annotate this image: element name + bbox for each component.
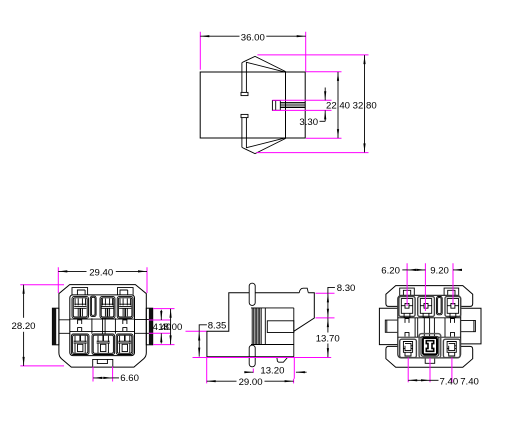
top latch foot [241, 92, 248, 95]
rear cavity B1 [400, 339, 417, 357]
dim 29.00 extension lines [207, 357, 294, 383]
front cavity B3 [116, 334, 133, 355]
top latch wing diagonals [242, 56, 286, 72]
dim 32.80 line [364, 55, 366, 152]
front bottom tab [93, 359, 113, 367]
front cavity A2 [100, 297, 115, 319]
rear terminal B3 [447, 342, 456, 357]
dim 36.00 extension lines [200, 32, 305, 72]
dim 9.20 arrow [453, 269, 462, 271]
svg-text:6.60: 6.60 [120, 373, 139, 384]
dim 8.30 extension lines [316, 293, 335, 318]
rear terminal B1 [403, 342, 412, 357]
rear middle pegs left [405, 319, 409, 337]
dim 3.30 leader hook [320, 120, 326, 122]
front cavity A1 [72, 297, 89, 319]
svg-text:13.20: 13.20 [260, 366, 284, 377]
svg-text:36.00: 36.00 [241, 32, 265, 43]
dim 32.80 extension lines [257, 55, 369, 153]
rear bottom tab [425, 358, 435, 363]
rear cavity A3 [445, 297, 461, 317]
dim 3.30 extension lines [272, 100, 331, 110]
front terminal A3 [119, 299, 131, 317]
bottom latch arm [242, 118, 247, 149]
side bottom latch bump [277, 357, 288, 362]
front terminal B3 [118, 336, 131, 353]
dim 6.20 extension lines [407, 263, 453, 311]
rear right ear [461, 308, 481, 344]
bottom latch wing diagonals [242, 138, 286, 154]
rear top tab left [400, 288, 415, 295]
svg-text:8.35: 8.35 [208, 321, 227, 332]
bottom latch foot [241, 114, 248, 117]
svg-text:6.20: 6.20 [381, 265, 400, 276]
front cavity B2 [92, 334, 115, 355]
svg-text:13.70: 13.70 [316, 334, 340, 345]
svg-text:7.40: 7.40 [460, 376, 479, 387]
pin housing divider [275, 101, 277, 111]
side top latch bump [299, 288, 308, 293]
dim 22.40 extension lines [306, 72, 342, 139]
side inner step line [293, 308, 295, 357]
front left side channel [59, 320, 70, 334]
dim 13.20 extension lines [253, 357, 294, 379]
rear cavity B3 [443, 339, 460, 357]
dim 29.40 extension lines [58, 267, 147, 293]
dim 3.30 arrows [324, 88, 326, 101]
rear cavity B2 center [419, 334, 441, 358]
dim 7.40 line [408, 379, 430, 381]
dim 13.70 line [327, 318, 329, 332]
dim 8.30 line [327, 293, 329, 317]
svg-text:3.30: 3.30 [299, 117, 318, 128]
dim 13.20 arrows [245, 371, 253, 373]
front key slot [90, 296, 96, 316]
front middle pegs left [78, 320, 82, 332]
dim 22.40 line [337, 72, 339, 138]
top latch arm [242, 62, 247, 93]
front top tab right [118, 288, 134, 295]
rear top block outline [386, 286, 473, 307]
rear terminal B2 [426, 341, 433, 352]
front outline [59, 285, 146, 368]
side body outline [207, 293, 314, 357]
rear left ear [379, 308, 397, 344]
dim 28.20 extension lines [20, 285, 64, 366]
front middle pegs right [123, 320, 127, 332]
dim 29.40 line [58, 270, 86, 272]
rear left ear notch [385, 320, 398, 332]
pin housing block [272, 101, 280, 111]
side inner block top [251, 308, 294, 345]
front inner body [70, 295, 135, 356]
front cavity A3 [117, 297, 133, 319]
side cavity window [267, 321, 294, 333]
svg-text:28.20: 28.20 [12, 321, 36, 332]
top view inner face line [285, 72, 287, 138]
svg-text:29.00: 29.00 [239, 377, 263, 388]
rear middle band lines [398, 318, 461, 337]
rear terminal A2 [420, 299, 431, 318]
dim 6.60 extension lines [93, 367, 113, 382]
side flange bottom tab [249, 345, 255, 367]
dim 4.40 extension lines [149, 309, 175, 345]
rear middle pegs right [451, 319, 455, 337]
rear key slot [437, 297, 443, 315]
dim 8.35 line [198, 332, 200, 357]
front top tab left [72, 288, 88, 295]
top view body outline [200, 72, 305, 138]
dim 7.40 extension lines [408, 358, 452, 383]
rear cavity A2 [418, 297, 435, 317]
rear middle band dividers [415, 318, 445, 337]
front terminal A1 [74, 299, 86, 317]
front cavity B1 [71, 334, 89, 355]
front terminal A2 [102, 299, 114, 317]
front right ear [146, 308, 152, 345]
dim 4.40 arrows [160, 310, 162, 320]
svg-text:8.30: 8.30 [337, 283, 356, 294]
dim 36.00 line [200, 35, 239, 37]
rear terminal A1 [401, 299, 412, 318]
rear cavity A1 [399, 297, 415, 317]
side seal ribs [252, 308, 265, 345]
rear bottom block outline [386, 346, 473, 367]
pin blades [280, 102, 305, 107]
rear terminal A3 [447, 299, 458, 318]
svg-text:29.40: 29.40 [89, 268, 113, 279]
front middle band dividers [92, 318, 116, 334]
dim 28.20 line [23, 285, 25, 318]
dim 18.00 line [170, 309, 172, 345]
front terminal B2 [97, 336, 110, 353]
dim 6.20 line [402, 269, 407, 271]
front middle band lines [70, 319, 135, 331]
svg-text:18.00: 18.00 [158, 322, 182, 333]
rear inner body [398, 295, 461, 358]
dim 8.35 leader hook [199, 325, 207, 332]
rear right ear notch [461, 320, 475, 331]
dim 8.30 leader hook [328, 287, 335, 293]
svg-text:7.40: 7.40 [440, 376, 459, 387]
dim 8.35 extension lines [186, 331, 332, 357]
dim 6.60 line [93, 377, 112, 379]
side flange top tab [249, 283, 255, 305]
front terminal B1 [74, 336, 87, 353]
svg-text:22.40 32.80: 22.40 32.80 [326, 100, 377, 111]
front right side channel [135, 320, 149, 334]
rear top tab right [444, 288, 459, 295]
svg-text:9.20: 9.20 [430, 265, 449, 276]
dim 29.00 line [207, 380, 237, 382]
front left ear [52, 308, 59, 345]
